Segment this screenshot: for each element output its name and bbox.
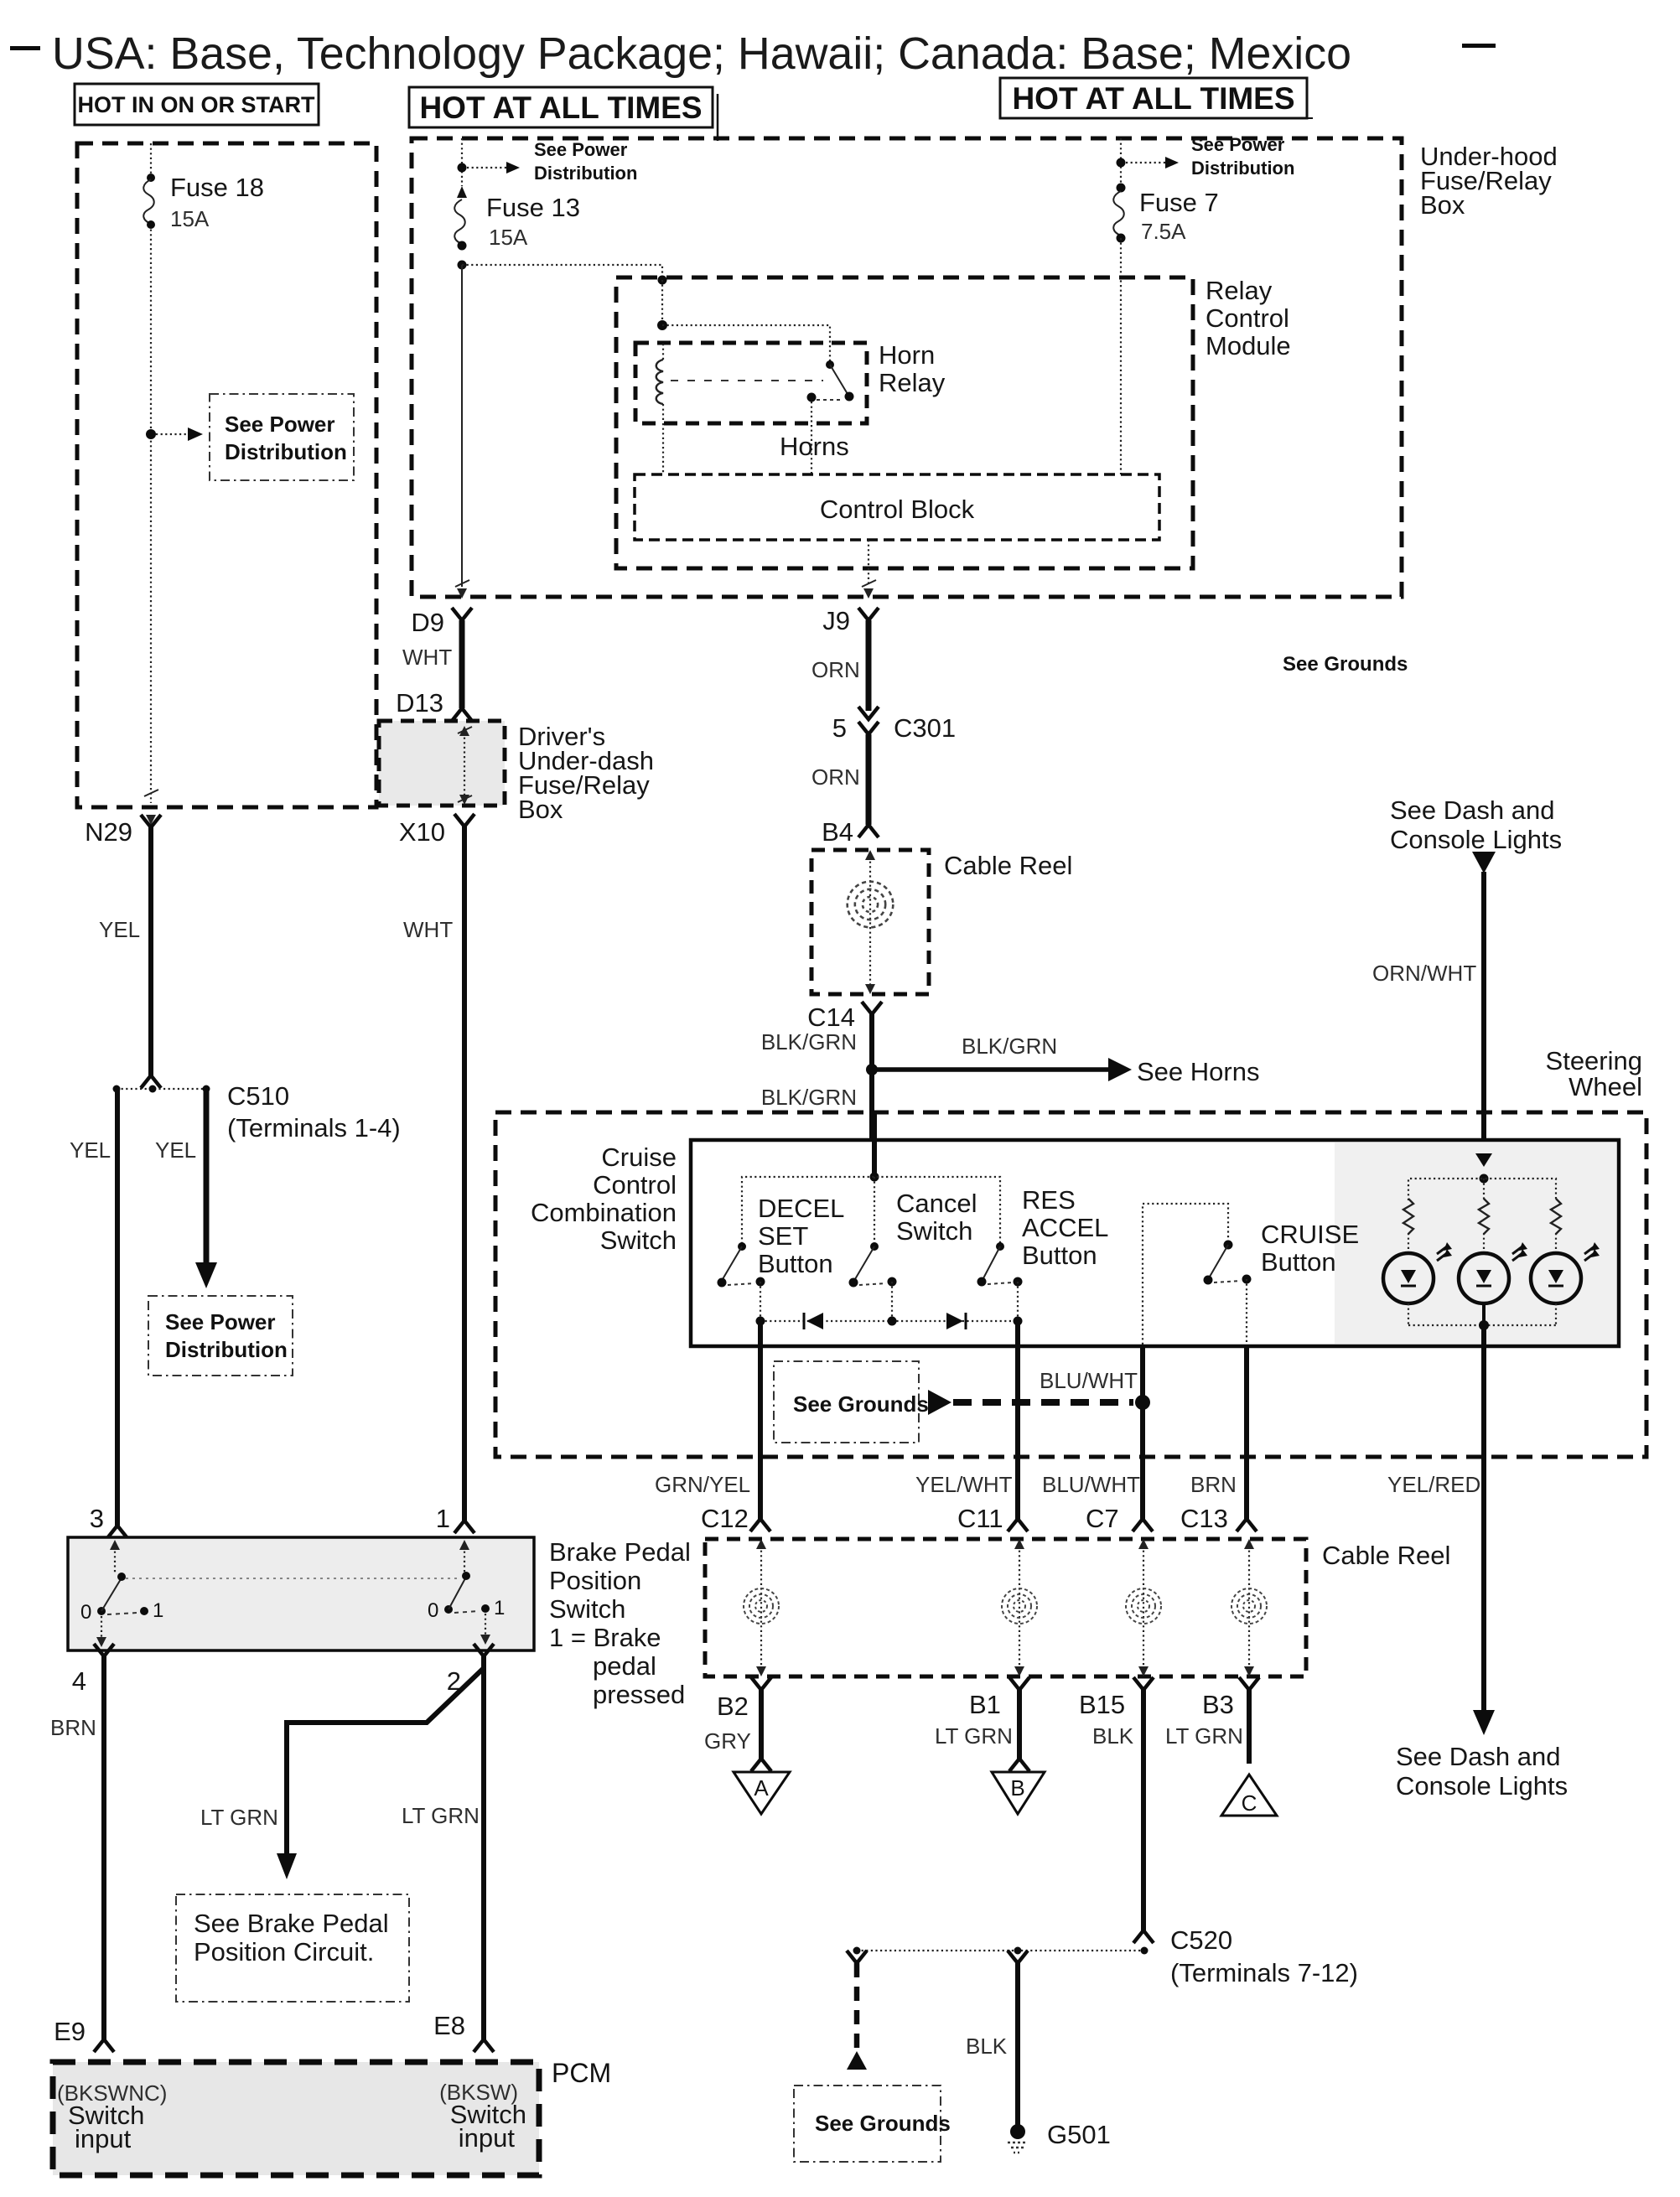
wire through lower cable reel (C11-B1) [1002, 1539, 1037, 1676]
svg-text:See Grounds: See Grounds [815, 2111, 951, 2136]
svg-text:C11: C11 [957, 1504, 1003, 1533]
svg-text:See Power: See Power [165, 1309, 276, 1334]
wire: ORN/WHT from dash lights into steering wheel [1472, 852, 1496, 873]
svg-text:YEL: YEL [70, 1137, 111, 1163]
svg-text:Fuse 7: Fuse 7 [1139, 188, 1219, 217]
see brake pedal position circuit reference box [176, 1894, 409, 2002]
horn relay box [635, 343, 867, 423]
svg-text:C: C [1242, 1790, 1257, 1816]
node X10 [399, 814, 474, 847]
wire: dotted branch to horn relay switch [662, 325, 830, 362]
svg-text:B3: B3 [1202, 1690, 1234, 1719]
svg-text:Distribution: Distribution [534, 163, 637, 184]
wire: BLK/GRN C14 to junction [869, 1014, 874, 1177]
svg-text:BRN: BRN [1190, 1472, 1237, 1497]
svg-text:input: input [75, 2124, 132, 2153]
svg-text:ACCEL: ACCEL [1022, 1213, 1108, 1242]
svg-text:BLK/GRN: BLK/GRN [761, 1029, 857, 1054]
svg-text:C13: C13 [1180, 1504, 1228, 1533]
node: tap to power distribution [146, 429, 156, 439]
pin label BKSWNC switch input [57, 2080, 167, 2153]
node: wire entering relay control module [658, 276, 667, 285]
node D9 [411, 608, 472, 637]
svg-text:B15: B15 [1079, 1690, 1125, 1719]
PCM box [53, 2062, 539, 2175]
svg-text:YEL/WHT: YEL/WHT [915, 1472, 1013, 1497]
connector C520 (terminals 7-12) [853, 1925, 1358, 1987]
svg-text:DECEL: DECEL [758, 1194, 844, 1223]
svg-text:Horns: Horns [780, 432, 849, 461]
svg-text:5: 5 [832, 713, 847, 743]
wire: LT GRN branch to brake pedal position circuit [287, 1668, 484, 1855]
svg-text:E9: E9 [54, 2017, 86, 2046]
wire: GRN/YEL from DECEL SET to C12 [758, 1321, 763, 1519]
cancel switch [849, 1242, 897, 1288]
wire: coil to control block [662, 423, 664, 474]
DECEL SET button switch [718, 1242, 765, 1288]
svg-text:N29: N29 [85, 817, 132, 847]
svg-text:BLU/WHT: BLU/WHT [1040, 1368, 1138, 1393]
svg-text:C12: C12 [701, 1504, 749, 1533]
svg-text:See Power: See Power [1191, 134, 1285, 155]
node: horn relay coil feed junction [657, 320, 667, 330]
svg-text:LT GRN: LT GRN [935, 1723, 1013, 1749]
svg-text:B4: B4 [822, 817, 853, 847]
svg-text:X10: X10 [399, 817, 445, 847]
wire: WHT X10 down to brake pedal position switch pin 1 [462, 826, 467, 1521]
see grounds reference box (steering wheel) [774, 1361, 929, 1443]
node B4 [822, 817, 879, 847]
svg-text:B1: B1 [969, 1690, 1001, 1719]
svg-text:E8: E8 [433, 2011, 465, 2040]
resistor (right lamp) [1551, 1199, 1561, 1234]
svg-text:15A: 15A [170, 206, 210, 231]
svg-text:1: 1 [494, 1597, 505, 1619]
svg-text:C510: C510 [227, 1081, 289, 1111]
diode rail [760, 1320, 1018, 1322]
header box HOT AT ALL TIMES (left) [409, 87, 718, 141]
wire: N29 exit arrow through box edge [144, 790, 158, 796]
svg-text:Cruise: Cruise [601, 1143, 677, 1172]
svg-text:Position: Position [549, 1566, 641, 1595]
svg-text:1: 1 [153, 1599, 163, 1622]
wire: dotted supply rail to buttons [742, 1177, 1000, 1244]
svg-text:Box: Box [1420, 190, 1465, 220]
svg-text:A: A [754, 1775, 769, 1801]
svg-text:Cable Reel: Cable Reel [1322, 1541, 1450, 1570]
wire: fuse 13 output down to D9 [461, 265, 463, 587]
wire: LT GRN to connector C [1247, 1690, 1252, 1764]
brake switch pole (N.C. side) [80, 1540, 163, 1647]
svg-text:Distribution: Distribution [165, 1337, 288, 1362]
see power distribution reference box (lower) [148, 1296, 293, 1376]
svg-text:pressed: pressed [593, 1680, 685, 1709]
LED return rail [1408, 1324, 1556, 1326]
cable reel spiral (upper) [848, 882, 894, 928]
brake switch mechanical link [126, 1578, 461, 1579]
svg-text:BLK: BLK [1092, 1723, 1134, 1749]
svg-text:USA: Base, Technology Package;: USA: Base, Technology Package; Hawaii; C… [52, 28, 1351, 79]
fuse 18 (15A) [143, 173, 264, 231]
wire: BLK/GRN arrow to see horns [877, 1067, 1108, 1072]
wire: ignition feed inside left box [150, 143, 152, 178]
svg-text:See Dash and: See Dash and [1396, 1742, 1560, 1771]
svg-text:YEL: YEL [155, 1137, 196, 1163]
steering wheel boundary box [495, 1112, 1646, 1457]
svg-text:ORN: ORN [811, 657, 860, 682]
svg-text:Control Block: Control Block [820, 495, 975, 524]
node: tap to power distribution (fuse 7 feed) [1117, 158, 1126, 168]
connector C510 (terminals 1-4) [113, 1081, 401, 1143]
wire: BLK to G501 [1008, 1951, 1028, 1963]
off-page connector B [992, 1772, 1045, 1814]
wire: dotted arrow to see power distribution [156, 433, 188, 435]
illumination LED cluster [1408, 1153, 1556, 1200]
LED lamp right [1531, 1233, 1600, 1325]
svg-text:Switch: Switch [600, 1225, 677, 1255]
LED lamp middle [1459, 1233, 1527, 1325]
svg-text:4: 4 [72, 1666, 86, 1696]
node: switch supply junction [870, 1173, 879, 1182]
svg-text:BRN: BRN [50, 1715, 96, 1740]
wire: BRN pin 4 to E9 [101, 1656, 106, 2039]
cable reel box (lower) [705, 1539, 1306, 1676]
header box HOT IN ON OR START [75, 84, 319, 125]
svg-text:Relay: Relay [1206, 276, 1273, 305]
svg-text:HOT AT ALL TIMES: HOT AT ALL TIMES [1012, 81, 1294, 116]
node J9 [822, 606, 879, 635]
svg-text:C301: C301 [894, 713, 956, 743]
brake pedal position switch box [68, 1537, 534, 1650]
svg-text:ORN: ORN [811, 764, 860, 790]
wire: BLU/WHT from CRUISE button to C7 [1140, 1345, 1145, 1519]
wire: BRN from CRUISE button to C13 [1244, 1345, 1249, 1519]
svg-text:7.5A: 7.5A [1141, 219, 1186, 244]
wire: control block output to J9 [868, 540, 869, 587]
svg-text:YEL: YEL [99, 917, 140, 942]
svg-text:BLU/WHT: BLU/WHT [1042, 1472, 1140, 1497]
svg-text:Distribution: Distribution [1191, 158, 1294, 179]
connector C301 pin 5 [832, 707, 956, 743]
svg-text:0: 0 [428, 1599, 438, 1622]
wire: YEL/RED lamp return [1481, 1325, 1486, 1456]
driver's under-dash fuse/relay box [379, 721, 505, 806]
svg-text:See Horns: See Horns [1137, 1057, 1259, 1086]
svg-text:B2: B2 [717, 1692, 749, 1721]
svg-text:Console Lights: Console Lights [1390, 825, 1562, 854]
node: tap to power distribution (fuse 13 feed) [458, 163, 467, 173]
horn relay coil [656, 360, 663, 404]
CRUISE button switch [1143, 1204, 1252, 1345]
svg-text:15A: 15A [489, 225, 528, 250]
svg-text:G501: G501 [1047, 2120, 1111, 2149]
svg-text:Module: Module [1206, 331, 1291, 360]
wire: RES ACCEL output to diode rail [1017, 1282, 1019, 1321]
svg-text:LT GRN: LT GRN [200, 1805, 278, 1830]
svg-text:Brake Pedal: Brake Pedal [549, 1537, 691, 1567]
svg-text:Combination: Combination [531, 1198, 677, 1227]
wire: cancel switch output to diode rail [891, 1282, 893, 1321]
svg-text:Relay: Relay [879, 368, 946, 397]
control block [635, 474, 1159, 540]
svg-text:C14: C14 [807, 1003, 855, 1032]
node C14 [807, 1002, 882, 1032]
svg-text:Control: Control [593, 1170, 677, 1200]
wire: ORN J9 to C301 [866, 620, 872, 711]
svg-text:pedal: pedal [593, 1651, 656, 1681]
svg-text:HOT IN ON OR START: HOT IN ON OR START [78, 92, 315, 117]
cable reel box (upper) [811, 850, 929, 994]
svg-text:Box: Box [518, 795, 563, 824]
title [10, 28, 1496, 79]
svg-text:ORN/WHT: ORN/WHT [1372, 961, 1476, 986]
header box HOT AT ALL TIMES (right) [1000, 78, 1313, 118]
svg-text:1: 1 [436, 1504, 450, 1533]
svg-text:3: 3 [90, 1504, 104, 1533]
wire: feed through driver's box [464, 733, 465, 796]
svg-text:Steering: Steering [1546, 1046, 1642, 1075]
off-page connector C [1221, 1775, 1277, 1816]
resistor (left lamp) [1403, 1199, 1413, 1234]
wire through lower cable reel (C13-B3) [1231, 1539, 1267, 1676]
ground G501 [1008, 2120, 1111, 2153]
svg-text:HOT AT ALL TIMES: HOT AT ALL TIMES [419, 91, 702, 125]
diode (left pointing) [806, 1313, 823, 1329]
svg-text:Button: Button [758, 1249, 833, 1278]
wire: LT GRN to connector B [1017, 1690, 1022, 1759]
wire: BLK/GRN feed into switch [872, 1112, 877, 1177]
RES ACCEL button switch [977, 1242, 1023, 1287]
wire: BLU/WHT ground link (dashed arrow) [928, 1390, 951, 1415]
svg-text:BLK/GRN: BLK/GRN [761, 1085, 857, 1110]
svg-text:D13: D13 [396, 688, 443, 718]
wire: GRY to connector A [759, 1690, 764, 1759]
svg-text:B: B [1010, 1775, 1024, 1801]
horn relay armature link [671, 380, 823, 381]
svg-text:J9: J9 [822, 606, 850, 635]
wire: YEL/RED to dash lights [1481, 1456, 1486, 1712]
svg-text:See Power: See Power [534, 139, 628, 160]
node: horn feed junction [866, 1064, 878, 1075]
wire: YEL branch arrow to power distribution [204, 1089, 210, 1264]
svg-text:See Grounds: See Grounds [793, 1391, 929, 1417]
node N29 [85, 815, 161, 847]
svg-text:input: input [459, 2123, 516, 2153]
resistor (middle lamp) [1479, 1199, 1489, 1234]
svg-text:See Dash and: See Dash and [1390, 795, 1554, 825]
svg-text:C7: C7 [1086, 1504, 1119, 1533]
svg-text:RES: RES [1022, 1185, 1076, 1215]
node: fuse 13 output junction [458, 261, 467, 270]
wire through lower cable reel (C12-B2) [744, 1539, 779, 1676]
svg-text:1 = Brake: 1 = Brake [549, 1623, 661, 1652]
fuse 13 (15A) [454, 186, 580, 251]
hot-in-on-or-start dashed feed box [77, 143, 376, 807]
svg-text:Button: Button [1261, 1247, 1336, 1277]
svg-text:Horn: Horn [879, 340, 935, 370]
wire: LT GRN pin 2 to E8 [481, 1656, 486, 2039]
svg-text:Button: Button [1022, 1241, 1097, 1270]
svg-text:WHT: WHT [403, 917, 453, 942]
wire: horn relay output to horns/control block [811, 402, 812, 474]
wire: YEL/WHT from RES ACCEL to C11 [1015, 1321, 1020, 1519]
wire: BLK from B15 to C520 [1141, 1690, 1146, 1932]
svg-text:Cable Reel: Cable Reel [944, 851, 1072, 880]
off-page connector A [734, 1772, 790, 1814]
under-hood fuse/relay box [412, 138, 1402, 597]
see grounds reference box (bottom) [794, 2086, 951, 2162]
wire through lower cable reel (C7-B15) [1126, 1539, 1161, 1676]
svg-text:Fuse 13: Fuse 13 [486, 193, 580, 222]
pin label BKSW switch input [439, 2080, 526, 2153]
wire: WHT D9 to D13 [459, 620, 465, 708]
wire: battery feed at fuse 7 [1120, 138, 1122, 188]
horn relay switch [807, 360, 854, 402]
node D13 [396, 688, 472, 721]
svg-text:CRUISE: CRUISE [1261, 1220, 1359, 1249]
svg-text:Switch: Switch [549, 1594, 625, 1624]
svg-text:Switch: Switch [896, 1216, 972, 1246]
svg-text:Cancel: Cancel [896, 1189, 977, 1218]
svg-text:See Brake Pedal: See Brake Pedal [194, 1909, 389, 1938]
svg-text:Fuse 18: Fuse 18 [170, 173, 264, 202]
cruise control combination switch box [691, 1140, 1619, 1346]
wire: fuse 7 output down to control block [1120, 238, 1122, 474]
wire: dotted run from fuse 13 to relay control module [462, 265, 662, 277]
svg-text:(Terminals 7-12): (Terminals 7-12) [1170, 1958, 1358, 1987]
svg-text:BLK: BLK [966, 2034, 1008, 2059]
fuse 7 (7.5A) [1113, 184, 1219, 245]
svg-text:D9: D9 [411, 608, 444, 637]
svg-text:Position Circuit.: Position Circuit. [194, 1937, 374, 1966]
svg-text:GRY: GRY [704, 1728, 751, 1754]
svg-text:BLK/GRN: BLK/GRN [962, 1034, 1057, 1059]
svg-text:LT GRN: LT GRN [1165, 1723, 1243, 1749]
wire: battery feed at fuse 13 [461, 138, 463, 186]
wire: dashed ground branch to see grounds [847, 1951, 867, 1963]
svg-text:YEL/RED: YEL/RED [1387, 1472, 1480, 1497]
svg-text:Console Lights: Console Lights [1396, 1771, 1568, 1801]
wire: YEL from N29 to C510 [148, 827, 153, 1075]
svg-text:Distribution: Distribution [225, 439, 347, 464]
svg-text:Control: Control [1206, 303, 1289, 333]
svg-text:See Power: See Power [225, 412, 335, 437]
svg-text:C520: C520 [1170, 1925, 1232, 1955]
svg-text:Wheel: Wheel [1569, 1072, 1642, 1101]
svg-text:LT GRN: LT GRN [402, 1803, 480, 1828]
svg-text:0: 0 [80, 1601, 91, 1624]
diode (right pointing) [946, 1313, 963, 1329]
svg-text:PCM: PCM [552, 2058, 611, 2088]
relay control module box [616, 277, 1193, 568]
see power distribution reference box (left) [210, 394, 354, 480]
wire: YEL branch to brake pedal position switch pin 3 [115, 1089, 120, 1526]
svg-text:GRN/YEL: GRN/YEL [655, 1472, 750, 1497]
brake switch pole (N.O. side) [428, 1540, 505, 1645]
wire: ORN C301 to B4 [866, 734, 872, 825]
wire through upper cable reel [869, 857, 871, 987]
svg-text:(Terminals 1-4): (Terminals 1-4) [227, 1113, 401, 1143]
LED lamp left [1383, 1233, 1452, 1325]
svg-text:See Grounds: See Grounds [1283, 653, 1408, 676]
svg-text:WHT: WHT [402, 645, 452, 670]
svg-text:SET: SET [758, 1221, 808, 1251]
wire: DECEL SET output to diode rail [760, 1282, 761, 1321]
